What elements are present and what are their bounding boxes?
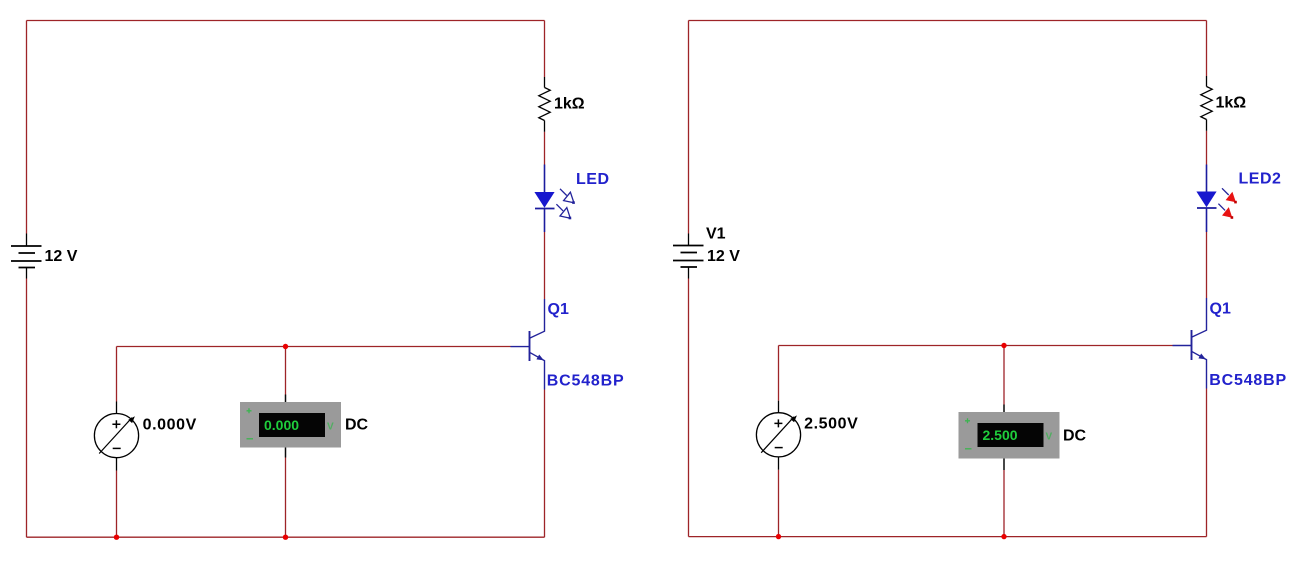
wire LED to transistor collector bbox=[1206, 232, 1208, 298]
transistor Q1 right (NPN) bbox=[1173, 298, 1207, 389]
wire voltmeter branch down bbox=[116, 347, 118, 402]
LED light arrow 1 (on, red) bbox=[1222, 188, 1237, 203]
svg-text:LED: LED bbox=[576, 171, 610, 188]
svg-text:12 V: 12 V bbox=[707, 248, 740, 265]
wire resistor to LED bbox=[1206, 131, 1208, 165]
LED light arrow 2 (on, red) bbox=[1218, 204, 1233, 219]
wire base horizontal bbox=[117, 346, 511, 348]
junction bottom/meter bbox=[283, 535, 288, 540]
junction base/meter right bbox=[1001, 343, 1006, 348]
svg-text:DC: DC bbox=[345, 417, 369, 434]
meter display window bbox=[259, 413, 325, 437]
LED D2 symbol bbox=[1196, 165, 1216, 233]
resistor R2 1k bbox=[1201, 76, 1212, 131]
wire meter branch down bbox=[285, 347, 287, 395]
svg-text:LED2: LED2 bbox=[1239, 171, 1282, 188]
digital meter M2 body bbox=[240, 402, 341, 448]
wire voltmeter branch down bbox=[778, 346, 780, 401]
svg-text:1kΩ: 1kΩ bbox=[554, 96, 585, 113]
transistor Q1 (NPN) bbox=[511, 299, 545, 390]
wire meter branch down bbox=[1003, 346, 1005, 405]
wire base horizontal bbox=[779, 345, 1173, 347]
junction bottom/meter right bbox=[1001, 534, 1006, 539]
wire bottom rail left circuit bbox=[27, 536, 545, 538]
svg-text:0.000V: 0.000V bbox=[143, 417, 197, 434]
meter minus mark bbox=[247, 438, 254, 440]
wire left rail upper segment (battery V1) bbox=[688, 21, 690, 234]
LED light arrow 1 (off, outline) bbox=[560, 189, 575, 204]
svg-text:Q1: Q1 bbox=[1210, 301, 1231, 318]
meter pin leads (black) bbox=[285, 395, 287, 458]
svg-text:2.500V: 2.500V bbox=[804, 416, 858, 433]
wire bottom rail right circuit bbox=[689, 536, 1207, 538]
svg-text:1kΩ: 1kΩ bbox=[1216, 95, 1247, 112]
meter display window right bbox=[978, 423, 1044, 447]
wire left rail lower segment bbox=[688, 279, 690, 537]
meter plus mark bbox=[247, 408, 252, 413]
svg-text:V: V bbox=[327, 422, 334, 433]
svg-text:V1: V1 bbox=[706, 226, 726, 243]
LED D1 symbol bbox=[534, 165, 554, 233]
svg-text:BC548BP: BC548BP bbox=[1209, 372, 1287, 389]
svg-text:BC548BP: BC548BP bbox=[547, 373, 625, 390]
voltmeter M3 (analog) bbox=[756, 401, 800, 470]
svg-text:2.500: 2.500 bbox=[983, 427, 1018, 443]
svg-text:V: V bbox=[1046, 432, 1053, 443]
junction base/meter bbox=[283, 344, 288, 349]
wire left rail lower segment bbox=[26, 279, 28, 538]
wire right rail: top to resistor bbox=[544, 21, 546, 78]
wire voltmeter bottom to rail bbox=[116, 471, 118, 538]
wire left rail upper segment (battery V+) bbox=[26, 21, 28, 234]
junction bottom/voltmeter right bbox=[776, 534, 781, 539]
meter minus mark right bbox=[965, 448, 972, 450]
junction bottom/voltmeter bbox=[114, 535, 119, 540]
wire right rail: top to resistor bbox=[1206, 21, 1208, 77]
svg-text:Q1: Q1 bbox=[548, 301, 569, 318]
battery B1 12V bbox=[11, 234, 42, 279]
LED light arrow 2 (off, outline) bbox=[556, 204, 571, 219]
meter plus mark right bbox=[965, 418, 970, 423]
wire transistor emitter to bottom rail bbox=[544, 390, 546, 538]
wire LED to transistor collector bbox=[544, 232, 546, 299]
digital meter M4 body bbox=[959, 412, 1060, 459]
meter pin leads right (black) bbox=[1003, 405, 1005, 471]
svg-text:12 V: 12 V bbox=[45, 248, 78, 265]
wire transistor emitter to bottom rail bbox=[1206, 389, 1208, 537]
voltmeter M1 (analog) bbox=[94, 402, 138, 471]
resistor R 1k bbox=[539, 77, 550, 132]
battery V1 12V bbox=[673, 234, 704, 279]
svg-text:DC: DC bbox=[1063, 428, 1087, 445]
wire meter bottom to rail bbox=[1003, 470, 1005, 537]
wire resistor to LED bbox=[544, 132, 546, 165]
wire meter bottom to rail bbox=[285, 458, 287, 538]
svg-text:0.000: 0.000 bbox=[264, 417, 299, 433]
wire top rail left circuit bbox=[27, 20, 545, 22]
wire voltmeter bottom to rail bbox=[778, 470, 780, 537]
wire top rail right circuit bbox=[689, 20, 1207, 22]
